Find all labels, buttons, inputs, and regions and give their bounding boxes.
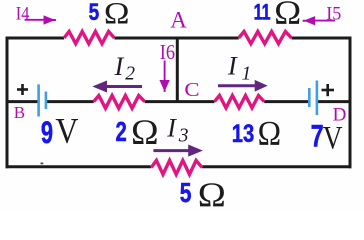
svg-text:V: V bbox=[323, 119, 343, 156]
resistor 5 ohm (bottom) bbox=[151, 160, 202, 174]
value label 13 ohm bbox=[232, 119, 254, 148]
svg-text:A: A bbox=[170, 8, 187, 33]
svg-text:5: 5 bbox=[180, 178, 192, 209]
svg-text:1: 1 bbox=[242, 64, 252, 85]
current arrow I2 (pointing left over 2 ohm) bbox=[94, 81, 142, 92]
svg-text:I6: I6 bbox=[160, 40, 175, 64]
current arrow I1 (pointing right over 13 ohm) bbox=[218, 81, 266, 91]
svg-text:I: I bbox=[166, 114, 177, 143]
wire: top edge right of 11ohm bbox=[292, 37, 352, 40]
battery 9V plus sign bbox=[17, 84, 28, 95]
battery 9V (left): long positive plate bbox=[37, 84, 40, 116]
current arrow I4 (top left, pointing right) bbox=[25, 16, 56, 24]
svg-text:C: C bbox=[184, 79, 199, 101]
wire: outer loop (left, top-left segment, right, bottom segments) bbox=[6, 37, 352, 169]
wire: top edge left of 5ohm bbox=[6, 37, 65, 40]
value label 5 ohm (bottom) bbox=[180, 178, 192, 209]
resistor 13 ohm (middle right) bbox=[215, 96, 265, 108]
wire: bottom edge right of 5ohm bbox=[202, 165, 352, 168]
current arrow I5 (top right, pointing left) bbox=[303, 17, 335, 25]
value label 7 V bbox=[311, 118, 324, 153]
svg-text:Ω: Ω bbox=[274, 0, 301, 31]
svg-text:B: B bbox=[14, 103, 25, 122]
wire: top edge between 5ohm and 11ohm bbox=[114, 37, 238, 40]
value label 2 ohm bbox=[116, 117, 127, 148]
svg-text:2: 2 bbox=[125, 64, 135, 85]
svg-text:I: I bbox=[114, 52, 125, 81]
resistor 5 ohm (top left) bbox=[64, 32, 114, 44]
svg-text:Ω: Ω bbox=[131, 113, 159, 152]
svg-text:13: 13 bbox=[232, 119, 254, 148]
battery 9V (left): short negative plate bbox=[45, 92, 48, 110]
stray ink speck bbox=[40, 162, 43, 164]
wire: left border B-to-corners bbox=[6, 37, 9, 169]
svg-text:11: 11 bbox=[254, 0, 271, 24]
wire: middle (7V battery to D / right border) bbox=[318, 100, 352, 103]
svg-text:I: I bbox=[227, 52, 238, 81]
battery 7V plus sign bbox=[322, 84, 335, 96]
resistor 11 ohm (top right) bbox=[239, 32, 292, 44]
wire: middle (2ohm to 13ohm through node C) bbox=[145, 100, 215, 103]
svg-text:5: 5 bbox=[89, 0, 100, 25]
svg-text:3: 3 bbox=[178, 125, 189, 146]
svg-text:2: 2 bbox=[116, 117, 127, 148]
svg-text:V: V bbox=[55, 112, 78, 151]
value label 5 ohm (top) bbox=[89, 0, 100, 25]
battery 7V (right): long positive plate bbox=[316, 81, 319, 116]
battery 7V (right): short negative plate bbox=[308, 88, 311, 107]
svg-text:7: 7 bbox=[311, 118, 324, 153]
svg-text:I4: I4 bbox=[16, 3, 30, 24]
svg-text:Ω: Ω bbox=[198, 175, 226, 211]
current arrow I6 (vertical, pointing down) bbox=[160, 61, 169, 92]
node C bbox=[184, 79, 199, 101]
svg-text:I5: I5 bbox=[326, 4, 341, 25]
wire: middle (9V battery to 2ohm) bbox=[47, 100, 94, 103]
wire: middle left (B to 9V battery) bbox=[7, 100, 38, 103]
svg-text:Ω: Ω bbox=[104, 0, 130, 30]
wire: bottom edge left of 5ohm bbox=[6, 165, 152, 168]
svg-text:Ω: Ω bbox=[258, 115, 281, 154]
value label 9 V bbox=[41, 114, 53, 150]
current arrow I3 (pointing right over bottom 5 ohm) bbox=[153, 145, 201, 156]
wire: middle (13ohm to 7V battery) bbox=[264, 100, 308, 103]
svg-text:9: 9 bbox=[41, 114, 53, 150]
wire: vertical A to C bbox=[176, 38, 179, 102]
wire: right border bbox=[349, 37, 352, 169]
resistor 2 ohm (middle left) bbox=[94, 96, 145, 109]
